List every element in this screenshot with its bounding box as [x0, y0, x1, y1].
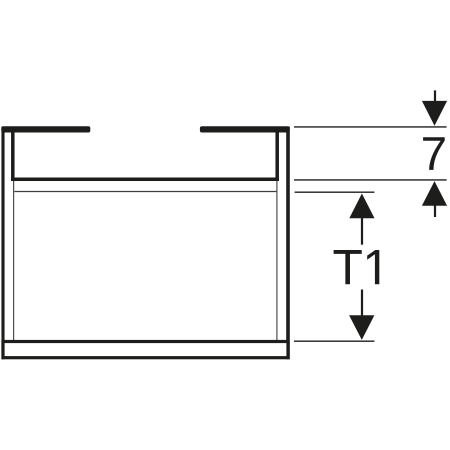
- dim T1 label letter T: [334, 250, 362, 284]
- cabinet left side wall: [1, 127, 4, 360]
- dim 7 arrow down head: [422, 101, 447, 126]
- dim T1 arrow down head: [349, 315, 374, 340]
- left inner wall thin line: [13, 181, 15, 340]
- cabinet top panel: [11, 177, 279, 181]
- left top flange: [1, 126, 90, 132]
- cabinet right side wall: [286, 127, 290, 360]
- dimension extension line T1 bottom: [294, 340, 374, 342]
- dim T1 arrow down tail: [361, 290, 363, 316]
- right inner wall thin line: [276, 181, 278, 340]
- dim 7 label: [423, 137, 445, 170]
- dim T1 arrow up tail: [361, 218, 363, 245]
- left flange lip vertical: [11, 129, 15, 181]
- dim T1 label digit 1: [367, 250, 379, 284]
- dimension extension line mid (top panel level): [294, 179, 447, 181]
- dim 7 arrow down tail: [434, 90, 436, 103]
- dimension extension line top (flange top level): [294, 126, 447, 128]
- dim T1 arrow up head: [349, 194, 374, 219]
- right flange lip vertical: [275, 129, 279, 181]
- dim 7 arrow up tail: [434, 205, 436, 217]
- cabinet bottom panel: [3, 342, 288, 358]
- right top flange: [200, 126, 290, 132]
- dimension extension line T1 top: [295, 191, 375, 193]
- inner shelf line: [14, 191, 276, 193]
- dim 7 arrow up head: [422, 181, 447, 206]
